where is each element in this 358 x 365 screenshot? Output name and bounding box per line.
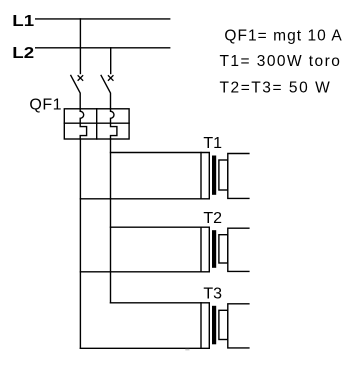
transformer T1 primary divider — [200, 153, 202, 199]
transformer T3 primary divider — [200, 303, 202, 349]
transformer T2 core bar — [212, 230, 216, 268]
wire right bus from QF1 pole 2 — [110, 139, 112, 303]
wire left bus from QF1 pole 1 — [79, 139, 81, 348]
transformer T1 primary box — [80, 153, 209, 199]
transformer T2 primary box — [80, 227, 209, 272]
QF1 pole 1 magnetic and thermal trip — [80, 109, 86, 139]
transformer T3 secondary terminals — [228, 304, 249, 348]
svg-text:T2=T3= 50 W: T2=T3= 50 W — [220, 79, 332, 96]
transformer T2 secondary winding — [219, 235, 228, 263]
transformer T3 core bar — [212, 306, 216, 345]
QF1 pole 2 fixed contact x — [108, 76, 113, 81]
transformer T2 secondary terminals — [228, 228, 249, 271]
wire L2 bus — [36, 47, 170, 49]
svg-text:T2: T2 — [203, 210, 222, 227]
wire L1 drop to QF1 pole 1 — [79, 19, 81, 74]
svg-text:T1= 300W toro: T1= 300W toro — [220, 53, 342, 70]
svg-text:T1: T1 — [203, 135, 222, 152]
svg-text:QF1= mgt 10 A: QF1= mgt 10 A — [224, 27, 342, 44]
watermark smudge — [185, 349, 189, 351]
QF1 pole 1 fixed contact x — [78, 76, 83, 81]
wire L2 drop to QF1 pole 2 — [110, 48, 112, 74]
transformer T3 primary box — [80, 303, 209, 349]
QF1 trip row divider — [64, 122, 129, 124]
transformer T2 primary divider — [200, 227, 202, 272]
transformer T1 secondary winding — [219, 160, 228, 190]
svg-text:QF1: QF1 — [29, 97, 62, 114]
transformer T1 secondary terminals — [228, 154, 249, 199]
QF1 pole 1 blade — [71, 75, 80, 108]
transformer T1 core bar — [212, 156, 216, 195]
svg-text:T3: T3 — [203, 285, 222, 302]
circuit breaker QF1 box — [64, 109, 129, 139]
QF1 pole 2 blade — [101, 75, 110, 108]
svg-text:L1: L1 — [12, 13, 34, 30]
svg-text:L2: L2 — [12, 45, 34, 62]
QF1 pole divider — [96, 109, 98, 139]
transformer T3 secondary winding — [219, 310, 228, 339]
wire L1 bus — [36, 18, 170, 20]
QF1 pole 2 magnetic and thermal trip — [111, 109, 117, 139]
